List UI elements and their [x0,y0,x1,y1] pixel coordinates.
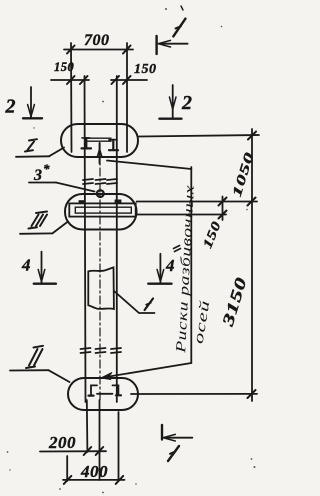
svg-text:150: 150 [199,219,223,251]
specks [7,8,256,493]
detail I left anchor [82,138,92,149]
section mark 2 left [5,87,43,118]
section mark 1 top right [157,6,188,54]
dimension 400 [63,462,125,484]
right dim: main vertical line [251,129,253,401]
mid extension line lower [137,214,226,216]
dimension 150 left [51,60,89,84]
break marks lower [81,348,122,353]
svg-text:3150: 3150 [219,275,250,329]
dimension 200 [40,433,106,455]
svg-text:4: 4 [165,256,175,275]
console plate inner [75,207,131,213]
extension line left of 700 [70,43,73,152]
svg-text:200: 200 [48,433,76,452]
label 3* [29,161,95,192]
svg-text:осей: осей [192,299,214,345]
extension line right of 700 [126,43,128,152]
leader of patch 1 [114,291,155,313]
column right edge [116,76,118,402]
detail I connecting bar [87,137,111,139]
svg-text:4: 4 [21,256,31,275]
plate tab right [115,200,121,203]
section mark 4 left [21,252,56,284]
break marks upper [83,179,117,184]
svg-text:700: 700 [84,32,110,49]
leader from detail I to text [107,161,191,170]
leader to detail II [103,363,191,378]
plate tab left [79,201,84,204]
mid extension line upper [137,201,257,203]
right dim: top extension line [139,135,259,137]
svg-text:150: 150 [54,60,75,74]
tick mid [248,198,256,206]
svg-text:150: 150 [134,62,157,77]
section mark 1 bottom [162,425,192,461]
150 short dim line [222,197,224,221]
bottom extension verticals [86,400,89,452]
svg-text:400: 400 [80,462,108,481]
detail I right anchor [109,140,118,151]
dimension 150 right [111,62,157,84]
console plate outer [69,203,135,216]
riska arrow up [99,143,101,164]
column axis line [99,152,101,400]
svg-text:2: 2 [181,92,193,114]
label II [10,346,70,382]
label I [16,139,64,157]
svg-text:3: 3 [33,167,43,184]
patch detail 1 [88,267,114,309]
detail ellipse I [61,124,138,157]
detail ellipse III [65,194,137,230]
detail II bottom bar [97,393,113,395]
tick bottom [248,390,256,398]
leader vertical line [190,167,192,363]
washer circle 3* [97,190,104,197]
column left edge [85,76,86,402]
dash mark near text [174,246,181,252]
tick top [248,132,256,140]
section mark 2 right [159,85,192,119]
svg-text:*: * [43,161,50,176]
svg-text:2: 2 [5,96,17,118]
detail II left clamp [89,385,98,395]
label III [20,212,68,234]
detail II right clamp [113,385,122,395]
bottom extension line [131,393,257,395]
section mark 4 right [148,254,175,284]
detail ellipse II [68,378,138,410]
dimension 700 [64,32,133,54]
